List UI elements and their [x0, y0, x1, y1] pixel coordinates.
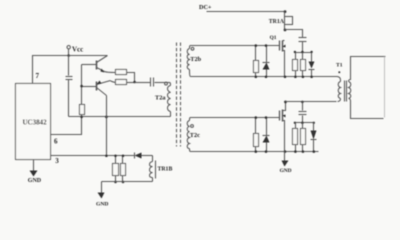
capacitor C3 (Q1 snubber) — [299, 38, 307, 53]
diode D5 (Q2 snubber, cathode down) — [311, 123, 317, 153]
wire T2a return line — [69, 116, 171, 118]
svg-text:3: 3 — [55, 157, 59, 165]
resistor R7 (Q1 snubber) — [293, 53, 298, 79]
wire T2c bottom / Q2 source rail — [191, 151, 319, 153]
resistor R2 (upper emitter) — [116, 70, 135, 83]
wire Q2 gate rail — [191, 117, 280, 119]
transformer T1 primary winding — [338, 77, 341, 102]
transformer T2 core (dashed lines) — [177, 43, 181, 147]
wire pin 3 rail — [51, 155, 135, 157]
capacitor C4 (Q2 snubber) — [299, 102, 307, 123]
wire DC+ rail — [207, 11, 285, 13]
diode D2 (Q1 gate zener, cathode up) — [263, 44, 270, 78]
op-amp U1 UC3842 PWM controller box — [16, 84, 51, 160]
transformer T2 winding T2a (primary) — [155, 82, 171, 116]
junction PNP base — [80, 85, 83, 88]
transistor Q2 (lower MOSFET) — [280, 102, 286, 152]
junction collector line / pin3 rail — [105, 155, 108, 158]
resistor R6 (Q1 gate) — [254, 44, 259, 78]
pin 7 wire — [33, 56, 69, 84]
capacitor C1 (Vcc bypass) — [66, 56, 73, 117]
junction Q1 drain node — [284, 29, 287, 32]
svg-text:TR1B: TR1B — [158, 167, 173, 173]
transformer T2 winding T2c (lower secondary) — [187, 118, 200, 152]
svg-text:T1: T1 — [336, 63, 343, 69]
svg-text:6: 6 — [54, 138, 58, 146]
ground (sense network) — [96, 182, 108, 208]
junction DC+ / TR1A — [284, 10, 287, 13]
resistor R11 (Q2 snubber) — [301, 123, 306, 153]
wire Vcc rail to driver collector — [69, 55, 108, 57]
junction Vcc rail — [67, 54, 70, 57]
svg-text:7: 7 — [36, 72, 40, 80]
svg-text:GND: GND — [28, 178, 42, 184]
wire Q2 drain rail to T1 — [286, 101, 337, 103]
svg-text:DC+: DC+ — [199, 4, 212, 11]
transformer T1 core — [345, 81, 347, 102]
node Vcc terminal — [67, 46, 83, 56]
svg-text:T2b: T2b — [190, 56, 201, 63]
wire PNP collector down to pin3 rail — [106, 96, 108, 156]
diode D1 (current sense rectifier, pointing left) — [135, 153, 153, 159]
wire Q1 gate rail — [191, 45, 280, 47]
resistor R10 (Q2 snubber) — [293, 123, 298, 153]
transformer T1 label — [336, 63, 343, 74]
ground (UC3842 pin 5) — [28, 160, 42, 185]
svg-text:Vcc: Vcc — [72, 46, 83, 54]
junction Q1 source on rail — [284, 76, 287, 79]
diode D4 (Q2 gate zener, cathode up) — [263, 116, 270, 153]
svg-text:GND: GND — [96, 202, 108, 208]
svg-text:TR1A: TR1A — [269, 19, 285, 25]
wire Q1 drain snubber tap — [285, 30, 303, 38]
transformer T1 secondary winding — [349, 57, 386, 119]
wire base drive vertical from pin 6 — [51, 115, 82, 135]
resistor R1 (base drive) — [80, 105, 85, 115]
svg-text:T2a: T2a — [155, 95, 166, 102]
transformer T2 winding T2b (upper secondary) — [187, 46, 201, 77]
transformer TR1A (current transformer primary) — [269, 12, 293, 30]
diode D3 (Q1 snubber, cathode down) — [309, 53, 315, 79]
junction Q2 snubber tap — [301, 101, 304, 104]
resistor R3 (lower emitter) — [116, 80, 135, 85]
junction base-resistor / return — [80, 116, 83, 119]
resistor R4 (current sense filter) — [113, 155, 119, 184]
resistor R9 (Q2 gate) — [254, 116, 259, 153]
junction snubber cap — [301, 51, 304, 54]
transistor Q4 PNP (totem-pole lower) — [82, 81, 116, 96]
junction Q2 source on rail — [284, 150, 287, 153]
junction PNP collector / return — [105, 116, 108, 119]
transistor Q1 (upper MOSFET) — [270, 35, 286, 77]
svg-text:UC3842: UC3842 — [23, 119, 48, 127]
transistor Q3 NPN (totem-pole upper) — [82, 56, 116, 73]
svg-text:Q1: Q1 — [270, 35, 277, 41]
svg-text:T2c: T2c — [190, 132, 200, 139]
wire T2b bottom / Q1 source rail — [191, 76, 338, 78]
junction resistor output node — [133, 81, 136, 84]
junction Q2 drain — [284, 101, 287, 104]
transformer TR1B (current transformer secondary) — [150, 156, 173, 182]
svg-text:GND: GND — [280, 168, 292, 174]
wire TR1B bottom rail — [102, 181, 153, 183]
wire secondary load right side — [384, 57, 386, 118]
ground (power stage) — [280, 152, 292, 175]
wire Q2 snubber node line — [295, 122, 314, 124]
capacitor C2 (coupling to T2a) — [135, 78, 170, 87]
resistor R8 (Q1 snubber) — [301, 53, 306, 79]
resistor R5 (current sense filter) — [121, 155, 126, 184]
wire Q1 snubber node line — [295, 52, 312, 54]
